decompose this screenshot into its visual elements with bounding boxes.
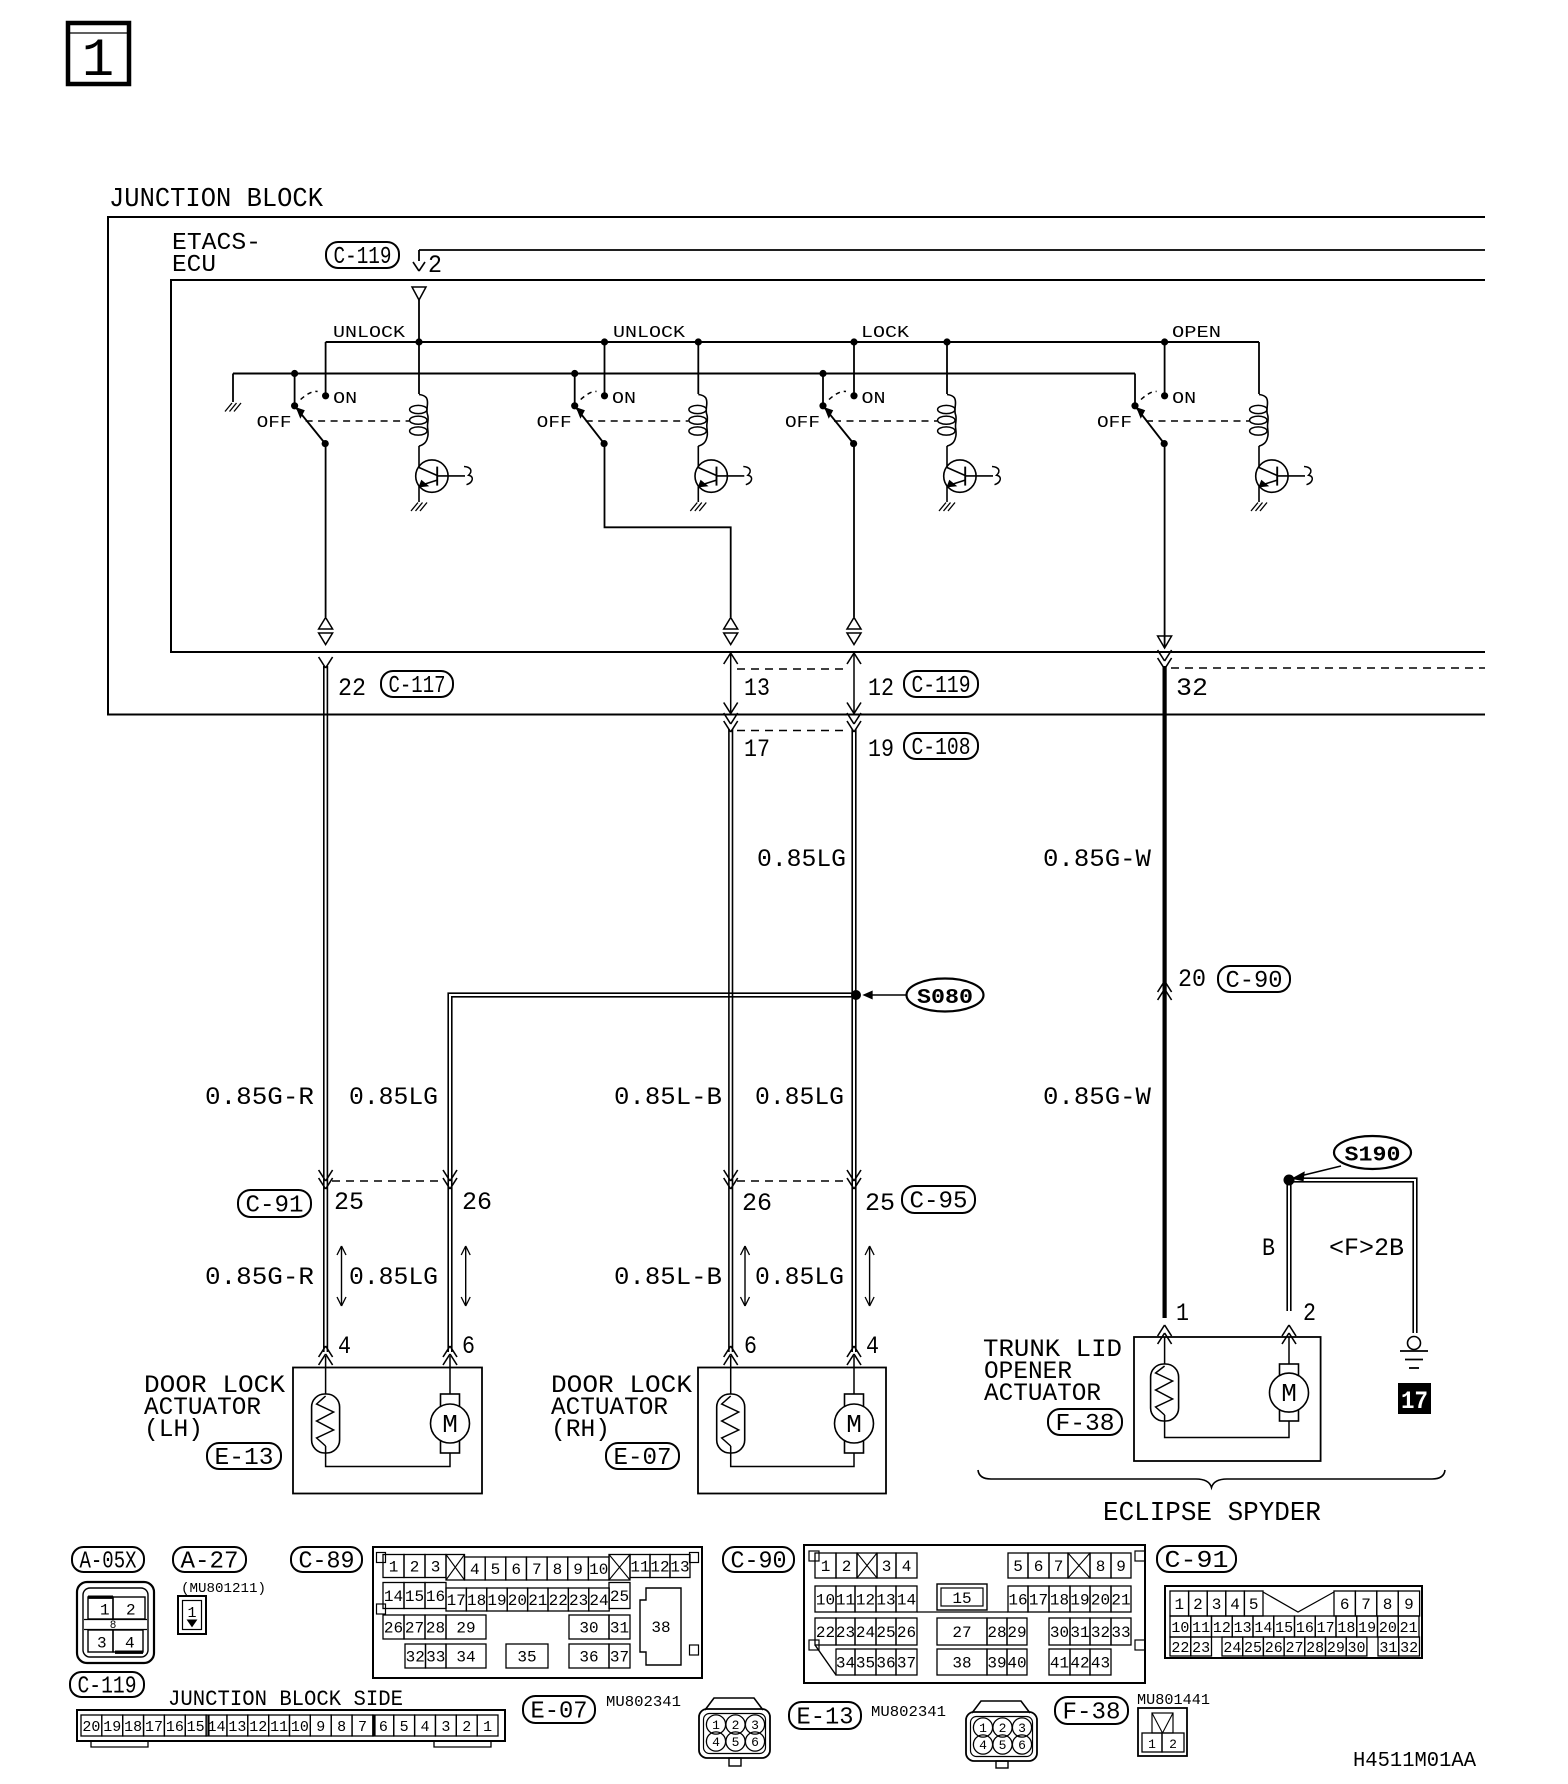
svg-text:13: 13 (876, 1592, 895, 1610)
svg-text:4: 4 (712, 1735, 720, 1750)
svg-text:28: 28 (987, 1624, 1006, 1642)
svg-text:12: 12 (1213, 1620, 1231, 1637)
svg-text:2: 2 (1193, 1596, 1203, 1614)
svg-text:29: 29 (456, 1620, 475, 1638)
svg-text:2: 2 (732, 1718, 740, 1733)
svg-text:ACTUATOR: ACTUATOR (984, 1379, 1101, 1408)
relay UNLOCK coil (418, 342, 420, 394)
LH actuator internal wire (326, 1453, 450, 1467)
svg-text:(LH): (LH) (144, 1415, 203, 1444)
svg-text:36: 36 (579, 1649, 598, 1667)
svg-text:12: 12 (249, 1719, 267, 1736)
door lock actuator RH pins 6 4 (724, 1354, 731, 1365)
connector C-95 crossing pins 26 25 (724, 1170, 731, 1181)
svg-text:A-27: A-27 (181, 1549, 239, 1576)
svg-text:6: 6 (462, 1332, 475, 1361)
trunk ground wire from S190 (1287, 1178, 1417, 1333)
svg-text:22: 22 (549, 1592, 568, 1610)
wire 2 harness (728, 729, 730, 1352)
relay UNLOCK ON contact (322, 392, 329, 399)
svg-text:16: 16 (1296, 1620, 1314, 1637)
connector A-05X label (72, 1547, 144, 1572)
svg-text:4: 4 (866, 1332, 879, 1361)
svg-text:JUNCTION BLOCK SIDE: JUNCTION BLOCK SIDE (168, 1687, 403, 1712)
svg-text:8: 8 (1383, 1596, 1393, 1614)
svg-text:5: 5 (999, 1738, 1007, 1753)
svg-text:14: 14 (897, 1592, 916, 1610)
relay OPEN output contact (1161, 440, 1168, 447)
svg-text:2: 2 (1169, 1737, 1177, 1752)
svg-text:20: 20 (1178, 965, 1206, 994)
svg-text:OFF: OFF (257, 414, 292, 433)
svg-text:1: 1 (483, 1719, 492, 1736)
svg-text:16: 16 (426, 1588, 445, 1606)
svg-text:23: 23 (836, 1624, 855, 1642)
svg-text:E-07: E-07 (531, 1699, 588, 1726)
svg-text:H4511M01AA: H4511M01AA (1353, 1750, 1476, 1773)
trunk motor M (1288, 1337, 1290, 1364)
body ground terminal (1408, 1337, 1421, 1350)
relay UNLOCK output contact (601, 440, 608, 447)
svg-text:14: 14 (208, 1719, 226, 1736)
svg-text:E-07: E-07 (614, 1445, 672, 1472)
svg-text:4: 4 (1230, 1596, 1240, 1614)
svg-text:C-91: C-91 (1165, 1548, 1229, 1575)
svg-text:LOCK: LOCK (861, 324, 910, 343)
svg-text:C-117: C-117 (389, 673, 446, 700)
svg-text:F-38: F-38 (1063, 1700, 1121, 1727)
door lock actuator LH box (293, 1368, 482, 1494)
relay OPEN switch blade (1131, 402, 1138, 409)
connector C-119 pin 32 (1158, 650, 1165, 661)
svg-text:27: 27 (952, 1624, 971, 1642)
svg-text:32: 32 (406, 1649, 425, 1667)
connector C-89 label (291, 1547, 362, 1572)
svg-text:3: 3 (441, 1719, 450, 1736)
relay LOCK ON branch wire (853, 342, 855, 396)
svg-text:<F>2B: <F>2B (1329, 1234, 1404, 1263)
relay UNLOCK ON branch wire (604, 342, 606, 396)
svg-text:C-119: C-119 (912, 673, 971, 700)
svg-text:0.85LG: 0.85LG (757, 845, 846, 874)
power rail from pin 2 (326, 341, 1259, 343)
svg-text:2: 2 (126, 1602, 136, 1620)
svg-text:(RH): (RH) (551, 1415, 610, 1444)
svg-text:(MU801211): (MU801211) (181, 1581, 266, 1597)
svg-text:28: 28 (426, 1620, 445, 1638)
svg-text:31: 31 (1379, 1640, 1397, 1657)
svg-text:0.85G-R: 0.85G-R (205, 1083, 314, 1112)
svg-text:16: 16 (1008, 1592, 1027, 1610)
svg-text:11: 11 (836, 1592, 855, 1610)
svg-text:1: 1 (187, 1605, 196, 1622)
svg-text:19: 19 (868, 735, 894, 764)
reversal arrows (341, 1246, 343, 1306)
relay UNLOCK driver transistor (416, 460, 448, 492)
svg-text:38: 38 (952, 1655, 971, 1673)
svg-text:26: 26 (384, 1620, 403, 1638)
svg-text:C-119: C-119 (334, 244, 392, 271)
splice S190 (1334, 1136, 1411, 1169)
connector C-91 pinout (1165, 1586, 1422, 1658)
svg-text:3: 3 (751, 1718, 759, 1733)
svg-text:38: 38 (651, 1619, 670, 1637)
connector C-89 pinout (373, 1547, 702, 1678)
svg-text:7: 7 (532, 1561, 542, 1579)
pin pass symbol wire 1 (319, 618, 333, 630)
relay UNLOCK coil (697, 342, 699, 394)
splice S080 (851, 990, 861, 1000)
svg-text:B: B (1262, 1234, 1275, 1263)
connector C-119 pin 2 label (326, 242, 399, 268)
svg-text:0.85LG: 0.85LG (349, 1083, 438, 1112)
svg-text:30: 30 (1348, 1640, 1366, 1657)
ground stub at common rail (232, 374, 234, 403)
svg-text:10: 10 (291, 1719, 309, 1736)
svg-text:9: 9 (573, 1561, 583, 1579)
connector E-13 label (789, 1702, 861, 1729)
svg-text:0.85LG: 0.85LG (349, 1263, 438, 1292)
svg-text:MU802341: MU802341 (871, 1704, 946, 1721)
svg-text:ON: ON (333, 390, 357, 409)
svg-text:22: 22 (816, 1624, 835, 1642)
svg-text:25: 25 (610, 1588, 629, 1606)
svg-text:40: 40 (1007, 1655, 1026, 1673)
svg-text:20: 20 (1379, 1620, 1397, 1637)
svg-text:21: 21 (1400, 1620, 1418, 1637)
RH resistor (730, 1356, 732, 1394)
svg-text:32: 32 (1091, 1624, 1110, 1642)
svg-text:M: M (846, 1410, 862, 1440)
svg-text:OFF: OFF (1097, 414, 1132, 433)
svg-text:22: 22 (338, 674, 366, 703)
svg-text:UNLOCK: UNLOCK (333, 324, 406, 343)
svg-text:12: 12 (856, 1592, 875, 1610)
relay OPEN ON branch wire (1164, 342, 1166, 396)
svg-text:20: 20 (82, 1719, 100, 1736)
svg-text:C-90: C-90 (731, 1549, 787, 1576)
relay 2 output wire to pin 13 (605, 444, 731, 617)
svg-text:F-38: F-38 (1056, 1411, 1115, 1438)
svg-text:43: 43 (1091, 1655, 1110, 1673)
relay UNLOCK coil link (dashed) (306, 420, 409, 422)
svg-text:13: 13 (744, 674, 770, 703)
svg-text:1: 1 (1174, 1596, 1184, 1614)
wire 4 trunk open (thick) (1162, 666, 1166, 1318)
svg-text:27: 27 (405, 1620, 424, 1638)
svg-text:C-108: C-108 (912, 735, 971, 762)
svg-text:26: 26 (462, 1188, 492, 1217)
svg-text:2: 2 (410, 1559, 420, 1577)
relay OPEN coil (1258, 342, 1260, 394)
svg-text:23: 23 (569, 1592, 588, 1610)
svg-text:E-13: E-13 (797, 1705, 854, 1732)
rail junction dots (415, 338, 422, 345)
svg-text:18: 18 (124, 1719, 142, 1736)
connector E-07 pinout (705, 1698, 763, 1710)
connector C-90 label (723, 1547, 794, 1572)
svg-text:32: 32 (1176, 674, 1208, 703)
svg-text:11: 11 (630, 1559, 649, 1577)
svg-text:20: 20 (508, 1592, 527, 1610)
svg-text:41: 41 (1050, 1655, 1069, 1673)
LH motor M (449, 1356, 451, 1394)
svg-text:20: 20 (1091, 1592, 1110, 1610)
svg-text:E-13: E-13 (215, 1445, 274, 1472)
svg-text:35: 35 (517, 1649, 536, 1667)
connector A-05X pinout (77, 1582, 154, 1663)
svg-text:S190: S190 (1345, 1145, 1401, 1168)
connector A-27 label (173, 1547, 246, 1572)
svg-text:C-89: C-89 (299, 1549, 355, 1576)
svg-text:35: 35 (856, 1655, 875, 1673)
svg-text:29: 29 (1007, 1624, 1026, 1642)
svg-text:10: 10 (1171, 1620, 1189, 1637)
svg-text:5: 5 (1013, 1558, 1023, 1576)
connector E-13 pinout (972, 1701, 1030, 1713)
svg-text:6: 6 (511, 1561, 521, 1579)
svg-text:OFF: OFF (537, 414, 572, 433)
svg-text:15: 15 (405, 1588, 424, 1606)
svg-text:12: 12 (650, 1559, 669, 1577)
svg-text:13: 13 (1234, 1620, 1252, 1637)
svg-text:24: 24 (856, 1624, 875, 1642)
connector C-119 label (70, 1672, 144, 1697)
connector C-119 pins 13 and 12 (730, 652, 732, 715)
relay OPEN coil link (dashed) (1146, 420, 1249, 422)
connector C-91 crossing pins 25 26 (319, 1170, 326, 1181)
svg-text:10: 10 (816, 1592, 835, 1610)
svg-text:UNLOCK: UNLOCK (613, 324, 686, 343)
eclipse spyder brace (978, 1470, 1445, 1488)
svg-text:33: 33 (426, 1649, 445, 1667)
svg-text:10: 10 (589, 1561, 608, 1579)
relay LOCK coil link (dashed) (834, 420, 937, 422)
RH motor M (853, 1356, 855, 1394)
relay LOCK output contact (850, 440, 857, 447)
svg-text:C-90: C-90 (1226, 968, 1283, 995)
svg-text:21: 21 (1111, 1592, 1130, 1610)
svg-text:2: 2 (842, 1558, 852, 1576)
svg-text:11: 11 (270, 1719, 288, 1736)
svg-text:8: 8 (337, 1719, 346, 1736)
relay OPEN driver transistor (1256, 460, 1288, 492)
svg-text:24: 24 (589, 1592, 608, 1610)
relay OPEN ON contact (1161, 392, 1168, 399)
svg-text:0.85G-W: 0.85G-W (1043, 845, 1151, 874)
svg-text:9: 9 (1404, 1596, 1414, 1614)
svg-text:0.85G-R: 0.85G-R (205, 1263, 314, 1292)
svg-text:5: 5 (1249, 1596, 1259, 1614)
svg-text:3: 3 (1212, 1596, 1222, 1614)
relay 4 output wire to pin 32 (1164, 444, 1166, 648)
svg-text:4: 4 (125, 1635, 135, 1653)
svg-text:2: 2 (999, 1721, 1007, 1736)
svg-text:6: 6 (1018, 1738, 1026, 1753)
svg-text:23: 23 (1192, 1640, 1210, 1657)
svg-text:25: 25 (876, 1624, 895, 1642)
connector F-38 pinout (1138, 1708, 1187, 1756)
connector C-91 label (1157, 1546, 1236, 1572)
svg-text:27: 27 (1285, 1640, 1303, 1657)
svg-text:C-119: C-119 (78, 1674, 137, 1701)
relay LOCK coil (946, 342, 948, 394)
pin pass symbol wire 3 (847, 618, 861, 630)
svg-text:OPEN: OPEN (1172, 324, 1221, 343)
junction block box (108, 217, 1485, 715)
svg-text:18: 18 (1337, 1620, 1355, 1637)
svg-text:A-05X: A-05X (80, 1549, 137, 1576)
wire 1 harness (323, 666, 325, 1352)
svg-text:6: 6 (379, 1719, 388, 1736)
svg-text:M: M (1281, 1379, 1297, 1409)
svg-text:MU802341: MU802341 (606, 1694, 681, 1711)
svg-text:25: 25 (865, 1189, 895, 1218)
relay UNLOCK output contact (322, 440, 329, 447)
relay LOCK ON contact (850, 392, 857, 399)
connector C-108 pins 17 and 19 (724, 713, 731, 724)
svg-text:26: 26 (897, 1624, 916, 1642)
svg-text:28: 28 (1306, 1640, 1324, 1657)
svg-text:16: 16 (166, 1719, 184, 1736)
switch common rail (233, 373, 1135, 375)
ECU input pin 2 triangle (412, 287, 426, 300)
svg-text:42: 42 (1070, 1655, 1089, 1673)
svg-text:34: 34 (456, 1649, 475, 1667)
ground reference 17 (1398, 1383, 1431, 1414)
svg-text:3: 3 (882, 1558, 892, 1576)
svg-text:25: 25 (334, 1188, 364, 1217)
relay UNLOCK driver transistor (695, 460, 727, 492)
svg-text:1: 1 (389, 1559, 399, 1577)
svg-text:37: 37 (897, 1655, 916, 1673)
svg-text:ECLIPSE SPYDER: ECLIPSE SPYDER (1103, 1499, 1321, 1529)
svg-text:5: 5 (400, 1719, 409, 1736)
svg-text:1: 1 (712, 1718, 720, 1733)
svg-text:14: 14 (384, 1588, 403, 1606)
svg-text:0.85LG: 0.85LG (755, 1263, 844, 1292)
svg-text:14: 14 (1254, 1620, 1272, 1637)
svg-text:26: 26 (742, 1189, 772, 1218)
svg-text:30: 30 (1050, 1624, 1069, 1642)
svg-text:37: 37 (610, 1649, 629, 1667)
svg-text:2: 2 (1303, 1299, 1316, 1328)
relay 3 output wire to pin 12 (853, 444, 855, 617)
svg-text:17: 17 (447, 1592, 466, 1610)
splice S080 branch wire (448, 993, 856, 1352)
svg-text:3: 3 (431, 1559, 441, 1577)
relay UNLOCK switch blade (571, 402, 578, 409)
svg-text:3: 3 (97, 1635, 107, 1653)
svg-text:1: 1 (821, 1558, 831, 1576)
svg-text:8: 8 (553, 1561, 563, 1579)
svg-text:0.85G-W: 0.85G-W (1043, 1083, 1151, 1112)
relay UNLOCK switch pivot wire (294, 374, 296, 406)
svg-text:19: 19 (487, 1592, 506, 1610)
svg-text:1: 1 (1176, 1299, 1189, 1328)
svg-text:15: 15 (952, 1590, 971, 1608)
connector C-117 pin 22 (319, 657, 326, 668)
svg-text:1: 1 (100, 1602, 110, 1620)
trunk lid opener actuator pins 1 2 (1158, 1333, 1165, 1344)
relay UNLOCK coil link (dashed) (586, 420, 689, 422)
svg-text:21: 21 (528, 1592, 547, 1610)
RH actuator internal wire (731, 1453, 854, 1467)
page number box 1 (68, 23, 129, 84)
svg-text:36: 36 (876, 1655, 895, 1673)
svg-text:ON: ON (1172, 390, 1196, 409)
svg-text:30: 30 (579, 1620, 598, 1638)
svg-text:17: 17 (1401, 1387, 1428, 1416)
svg-text:6: 6 (744, 1332, 757, 1361)
svg-text:29: 29 (1327, 1640, 1345, 1657)
svg-text:39: 39 (987, 1655, 1006, 1673)
relay UNLOCK ON branch wire (325, 342, 327, 396)
svg-text:31: 31 (1070, 1624, 1089, 1642)
door lock actuator RH box (698, 1368, 886, 1494)
svg-text:22: 22 (1171, 1640, 1189, 1657)
svg-text:26: 26 (1265, 1640, 1283, 1657)
svg-text:13: 13 (670, 1559, 689, 1577)
svg-text:7: 7 (1361, 1596, 1371, 1614)
svg-text:MU801441: MU801441 (1137, 1692, 1210, 1709)
relay UNLOCK switch blade (291, 402, 298, 409)
svg-text:34: 34 (836, 1655, 855, 1673)
LH resistor (325, 1356, 327, 1394)
svg-text:4: 4 (979, 1738, 987, 1753)
relay 1 output wire to pin 22 (325, 444, 327, 617)
relay UNLOCK ON contact (601, 392, 608, 399)
ETACS-ECU box (171, 280, 1485, 652)
svg-text:7: 7 (1054, 1558, 1064, 1576)
connector C-119 pinout strip (77, 1710, 505, 1741)
svg-text:0.85L-B: 0.85L-B (614, 1083, 722, 1112)
pin pass symbol wire 2 (724, 618, 738, 630)
svg-text:8: 8 (1096, 1558, 1106, 1576)
svg-text:OFF: OFF (785, 414, 820, 433)
svg-text:2: 2 (428, 251, 442, 280)
svg-text:25: 25 (1244, 1640, 1262, 1657)
relay OPEN switch pivot wire (1134, 374, 1136, 406)
svg-text:9: 9 (1116, 1558, 1126, 1576)
svg-text:4: 4 (902, 1558, 912, 1576)
svg-text:0.85LG: 0.85LG (755, 1083, 844, 1112)
wire 3 harness (851, 729, 853, 1352)
svg-text:18: 18 (1050, 1592, 1069, 1610)
svg-text:C-95: C-95 (910, 1189, 968, 1216)
connector A-27 pinout (178, 1596, 206, 1634)
svg-text:33: 33 (1111, 1624, 1130, 1642)
svg-text:11: 11 (1192, 1620, 1210, 1637)
svg-text:15: 15 (1275, 1620, 1293, 1637)
svg-text:8: 8 (110, 1620, 117, 1632)
svg-text:M: M (442, 1410, 458, 1440)
connector F-38 label (1055, 1697, 1128, 1724)
svg-text:7: 7 (358, 1719, 367, 1736)
svg-text:2: 2 (462, 1719, 471, 1736)
trunk resistor (1164, 1337, 1166, 1364)
svg-text:9: 9 (316, 1719, 325, 1736)
svg-text:4: 4 (470, 1561, 480, 1579)
relay LOCK driver transistor (944, 460, 976, 492)
svg-text:C-91: C-91 (246, 1193, 304, 1220)
svg-text:JUNCTION BLOCK: JUNCTION BLOCK (109, 185, 324, 215)
svg-text:ON: ON (862, 390, 886, 409)
svg-text:4: 4 (421, 1719, 430, 1736)
svg-text:13: 13 (228, 1719, 246, 1736)
svg-text:3: 3 (1018, 1721, 1026, 1736)
wire from C-119 pin 2 (419, 249, 1485, 251)
